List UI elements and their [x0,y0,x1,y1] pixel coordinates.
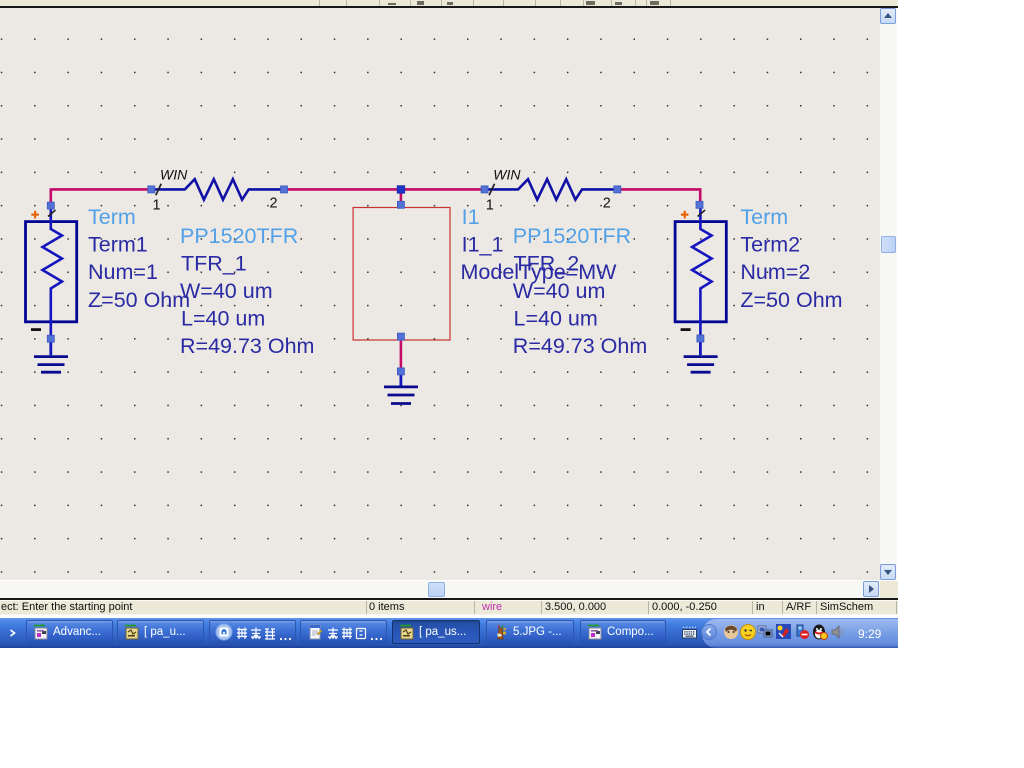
node at Term2 top pin [696,201,703,208]
tray collapse chevron button [701,624,717,640]
svg-text:WIN: WIN [493,167,521,183]
ground under Term2 [684,341,718,372]
system tray panel [702,619,898,649]
svg-text:1: 1 [153,198,161,214]
svg-text:L=40 um: L=40 um [181,307,265,331]
node at Term1 bottom ground [47,335,54,342]
svg-text:W=40 um: W=40 um [180,279,273,303]
node at R1 pin 2 [281,186,288,193]
ground under subcircuit I1 [384,373,418,404]
black line above status bar [0,598,898,600]
black separator line under toolbar [0,6,898,8]
node at Term1 top pin [47,202,54,209]
svg-text:R=49.73 Ohm: R=49.73 Ohm [180,334,314,358]
wire junction A on main net [397,186,405,194]
wire from R2 pin 2 right and down to Term2 pin [617,189,700,204]
svg-text:I1_1: I1_1 [462,233,504,257]
svg-text:Term: Term [88,205,136,229]
canvas [0,8,880,580]
svg-text:W=40 um: W=40 um [513,279,606,303]
svg-text:Term2: Term2 [740,233,800,257]
subcircuit I1 red outline box [353,208,450,341]
svg-text:TFR_2: TFR_2 [514,251,580,275]
svg-text:Term1: Term1 [88,233,148,257]
horizontal scrollbar [0,581,880,598]
status bar [0,600,898,601]
quick launch chevron [9,629,16,637]
resistor R2 (TFR_2) body [485,179,618,200]
resistor R1 pin 1 tick [156,184,161,195]
svg-text:Z=50 Ohm: Z=50 Ohm [88,288,190,312]
svg-text:1: 1 [486,198,494,214]
node at Term2 bottom ground [697,335,704,342]
node at R2 pin 2 [614,186,621,193]
svg-text:Term: Term [740,205,788,229]
corner [880,581,898,598]
node at I1 bottom pin [397,333,404,340]
node at R1 pin 1 [148,186,155,193]
port Term1 symbol [26,206,77,339]
ground under Term1 [34,341,68,372]
node at R2 pin 1 [481,186,488,193]
resistor R2 pin 1 tick [489,184,494,195]
wire from junction A down to subcircuit I1 top pin [400,189,403,204]
wire from subcircuit I1 bottom pin down to ground node [400,337,403,372]
port Term2 symbol [675,206,726,339]
svg-text:PP1520TFR: PP1520TFR [180,224,298,248]
svg-text:TFR_1: TFR_1 [181,251,247,275]
clock [858,627,898,641]
svg-text:L=40 um: L=40 um [514,307,598,331]
svg-text:PP1520TFR: PP1520TFR [513,224,631,248]
schematic svg [0,8,880,580]
node at I1 top pin [397,201,404,208]
node at middle ground [397,368,404,375]
wire from R1 pin 2 through junction A to R2 pin 1 [284,188,485,191]
svg-text:I1: I1 [462,205,480,229]
svg-text:Z=50 Ohm: Z=50 Ohm [740,288,842,312]
svg-text:2: 2 [603,196,611,212]
svg-text:Num=2: Num=2 [740,260,810,284]
taskbar [0,618,898,648]
svg-text:Num=1: Num=1 [88,260,158,284]
resistor R1 (TFR_1) body [151,179,284,200]
wire from Term1 pin up and right to R1 pin 1 [51,189,152,205]
language bar keyboard icon [681,626,698,640]
svg-text:2: 2 [270,196,278,212]
svg-text:WIN: WIN [160,167,188,183]
svg-text:R=49.73 Ohm: R=49.73 Ohm [513,334,647,358]
vertical scrollbar [880,8,897,580]
top toolbar remnant strip [0,0,898,6]
